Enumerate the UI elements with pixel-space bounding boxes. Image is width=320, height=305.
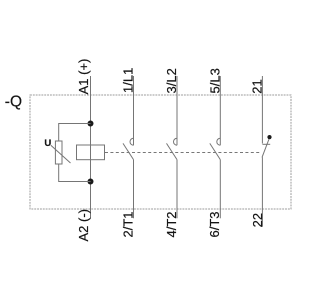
pole 2 wire 3/L2 top (176, 76, 178, 145)
contact 1 fixed hook (130, 138, 133, 145)
contact 1 moving blade (123, 143, 134, 159)
pole 1 wire 2/T1 bottom (133, 160, 135, 219)
svg-text:21: 21 (249, 79, 264, 93)
wire A1-A2 vertical (90, 76, 92, 218)
enclosure dashed outline -Q (30, 95, 291, 209)
svg-text:U: U (44, 138, 51, 149)
svg-text:6/T3: 6/T3 (207, 211, 222, 237)
aux wire 21 top (261, 76, 263, 144)
node junction top (88, 121, 94, 127)
svg-text:5/L3: 5/L3 (207, 68, 222, 93)
svg-text:22: 22 (250, 213, 265, 227)
svg-text:4/T2: 4/T2 (164, 211, 179, 237)
pole 3 wire 6/T3 bottom (219, 160, 221, 219)
coil K (operating coil) (77, 145, 105, 160)
aux wire 22 bottom (261, 157, 263, 227)
contact 3 fixed hook (217, 138, 221, 145)
contact 3 moving blade (210, 143, 221, 159)
svg-text:-Q: -Q (5, 93, 22, 110)
contact 2 fixed hook (174, 138, 178, 145)
varistor U (surge suppressor) (51, 141, 71, 164)
svg-text:A2 (-): A2 (-) (76, 209, 91, 242)
pole 2 wire 4/T2 bottom (176, 160, 178, 219)
svg-text:1/L1: 1/L1 (120, 68, 135, 93)
node junction bottom (88, 179, 94, 185)
pole 1 wire 1/L1 top (133, 76, 135, 145)
aux contact moving blade (262, 139, 269, 157)
svg-text:3/L2: 3/L2 (164, 68, 179, 93)
contact 2 moving blade (167, 143, 178, 159)
wire varistor branch top (59, 124, 91, 142)
svg-text:A1 (+): A1 (+) (76, 59, 91, 95)
pole 3 wire 5/L3 top (219, 76, 221, 145)
aux contact seat bar (262, 143, 270, 145)
svg-text:2/T1: 2/T1 (120, 211, 135, 237)
mechanical linkage dashed (105, 152, 261, 154)
aux contact tip dot (267, 135, 271, 139)
wire varistor branch bottom (59, 164, 91, 182)
